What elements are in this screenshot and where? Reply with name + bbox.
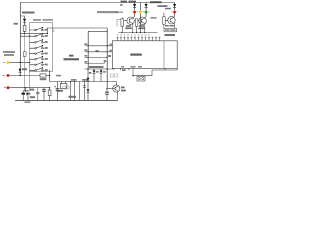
- label D2: [96, 71, 99, 73]
- vertical column x74.5: [74, 82, 76, 101]
- label top edge left text: [121, 1, 128, 3]
- wire switchbox bottom to red rail: [49, 70, 51, 82]
- switch S row6: [30, 56, 45, 60]
- wire yellow to border: [9, 61, 29, 63]
- label MC14017: [64, 58, 80, 60]
- wire y63.2 jog: [85, 62, 108, 64]
- bus extension below box: [28, 72, 30, 91]
- IC1 pin labels: [84, 55, 87, 57]
- label boxes x110-118 above T5: [110, 74, 113, 77]
- transistor T2: [139, 17, 146, 24]
- diode column x88 lower: [87, 89, 90, 92]
- T3 base resistor: [164, 13, 168, 29]
- wire top border rail: [20, 2, 175, 4]
- label T5: [121, 87, 125, 89]
- extra vertical x117: [117, 20, 121, 27]
- label Entnahme erlaubt: [3, 51, 15, 53]
- wire node rail y33.6: [20, 33, 47, 35]
- transistor T3: [168, 17, 175, 24]
- bottom ground rail: [15, 100, 118, 102]
- diode D1 top-left: [23, 19, 26, 22]
- IC2 bottom pins left: [121, 68, 134, 75]
- label T1 BC548: [126, 25, 131, 27]
- switch S row1: [30, 27, 45, 31]
- label R1: [40, 78, 47, 80]
- box label S-box top right: [164, 28, 177, 32]
- relay box component: [62, 82, 66, 84]
- IC2 bottom wire loop right: [133, 68, 177, 75]
- switch S row2: [20, 33, 44, 37]
- wire node rail y69: [85, 68, 115, 70]
- terminal yellow jack: [4, 62, 6, 64]
- LED2 yellow column: [139, 3, 141, 33]
- label T2 BC548: [139, 25, 144, 27]
- terminal red jack 2: [4, 87, 6, 89]
- label boxes right of relay: [63, 86, 66, 89]
- main mid rail y81.5: [50, 81, 117, 83]
- diode D inline left border: [19, 69, 22, 72]
- LED4 red column: [174, 3, 176, 17]
- label below rectifier: [30, 96, 35, 98]
- rectifier bar element: [22, 93, 26, 95]
- IC1 pin stub y51.3: [85, 51, 89, 53]
- vertical column x70.5: [70, 82, 72, 101]
- chain column x24.6 down: [23, 34, 24, 91]
- resistor R2 inline on chain column: [23, 52, 26, 57]
- label IC2 small: [165, 34, 176, 36]
- vertical column x79.5: [79, 82, 81, 101]
- wire red2 rail: [9, 87, 49, 89]
- LED1 red column: [134, 3, 136, 17]
- label below columns: [69, 96, 77, 98]
- oscillator box with circles: [139, 75, 144, 78]
- resistor vertical x49.7: [48, 90, 51, 96]
- transistor T5: [113, 85, 120, 92]
- LED3 green column: [145, 3, 147, 17]
- IC2 left pins: [110, 46, 112, 52]
- label C1 text: [22, 12, 35, 14]
- IC2 internal divider: [163, 41, 165, 69]
- wire down to rectifier: [25, 88, 27, 92]
- diode D3 x101: [100, 70, 103, 73]
- IC2 top pins: [118, 38, 160, 41]
- label T3 BC548 under circle: [165, 25, 169, 27]
- T2 base resistor: [137, 21, 139, 33]
- resistor R top-left: [23, 25, 26, 31]
- transistor T1: [127, 17, 134, 24]
- label IC1: [69, 55, 74, 57]
- junction dot: [24, 33, 25, 34]
- bus x107 vertical: [106, 28, 108, 89]
- switch S row8: [30, 67, 45, 71]
- diode D2 x94: [93, 70, 96, 73]
- label Magnetteller: [97, 11, 118, 13]
- LED side ticks: [131, 11, 178, 13]
- label under relay box: [57, 90, 63, 92]
- switch S row4: [30, 45, 45, 49]
- arrow mark left edge: [117, 5, 124, 12]
- label D diode: [22, 68, 27, 70]
- wire left border rail: [19, 3, 21, 76]
- wire y31.3 link: [88, 30, 107, 32]
- electrolytic cap x107 bottom: [106, 89, 108, 101]
- diode column x88 upper: [87, 78, 90, 81]
- terminal red jack 1: [3, 75, 5, 77]
- label speck z: [89, 72, 92, 74]
- label above rail x71-77: [71, 79, 77, 81]
- wire IC1 to IC2 y52.4: [88, 51, 112, 53]
- IC2 top pin numbers: [117, 37, 161, 38]
- IC1 pin stub y45.3: [85, 45, 89, 47]
- switch S row5: [30, 51, 45, 55]
- stub node x53: [53, 28, 55, 31]
- label Grundplatine: [33, 19, 41, 21]
- emitter rail y32.5: [119, 32, 158, 34]
- switch S row3: [30, 39, 45, 43]
- capacitor small x37.8: [37, 88, 39, 101]
- wire IC1 to IC2 y46.4: [88, 45, 112, 47]
- vertical column x84.5: [84, 82, 86, 101]
- switch S row7: [30, 62, 45, 66]
- label D3: [103, 71, 106, 73]
- label top right texts: [150, 1, 162, 3]
- IC2 box: [112, 41, 177, 69]
- label T3 BC548: [165, 29, 170, 31]
- label IC2 MC14538: [130, 54, 142, 56]
- wire resistor to node rail: [24, 31, 26, 33]
- label near rectifier top: [30, 89, 34, 91]
- T1 base resistor: [122, 17, 127, 32]
- diode element pointing right: [27, 92, 30, 95]
- label 4x BC548 mid: [151, 17, 157, 19]
- label 12V left of chain: [14, 23, 19, 25]
- resistor R1 inline: [40, 74, 46, 77]
- electrolytic cap x57.5: [57, 82, 59, 101]
- wire riser to top bus: [47, 28, 107, 34]
- label above y69 rail: [89, 66, 104, 68]
- label speck mid: [96, 50, 99, 52]
- label above rail x82-90: [82, 79, 89, 81]
- label specks below rail: [25, 101, 31, 103]
- capacitor C bottom x44: [43, 88, 45, 101]
- bus x88 vertical IC1: [87, 31, 89, 69]
- wire branch to C1 chain: [20, 16, 25, 18]
- wire y57.4 IC1 to bus: [85, 56, 108, 58]
- box Grundplatine switch block: [30, 23, 53, 72]
- IC2 top pin names: [117, 34, 150, 35]
- wire red1 rail: [9, 75, 40, 77]
